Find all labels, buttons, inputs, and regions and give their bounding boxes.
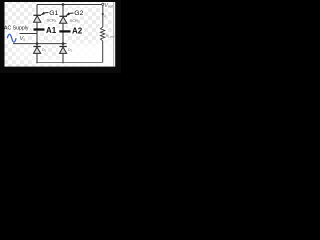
frame left — [0, 0, 5, 73]
thyristor SCR1 — [33, 15, 41, 22]
wire: load to bottom rail — [102, 41, 104, 63]
current arrow IL — [102, 13, 105, 16]
wire: right rail down to load — [102, 5, 104, 27]
wire: D1 to bottom rail — [36, 53, 38, 62]
wire: SCR1 anode drop — [36, 5, 38, 16]
thyristor SCR2 — [59, 16, 67, 23]
svg-text:A1: A1 — [46, 26, 57, 35]
photo edge line right — [113, 2, 115, 66]
frame right — [115, 0, 121, 73]
frame bottom — [0, 67, 121, 73]
terminal bar A1 — [34, 28, 45, 30]
AC source sine wave — [7, 34, 16, 42]
svg-text:D1: D1 — [42, 48, 47, 52]
wire: SCR1 cathode to A1 bar — [36, 22, 38, 29]
frame top — [0, 0, 121, 2]
svg-text:Vs: Vs — [20, 36, 26, 42]
wire: SCR2 anode drop — [62, 5, 64, 17]
diode D1 — [33, 47, 40, 54]
svg-text:AC Supply: AC Supply — [4, 25, 29, 31]
svg-text:SCR1: SCR1 — [47, 18, 57, 24]
svg-text:SCR2: SCR2 — [70, 18, 80, 24]
gate arrow G1 — [40, 12, 48, 16]
svg-text:G1: G1 — [49, 10, 58, 17]
svg-text:Vout: Vout — [104, 3, 114, 9]
terminal bar A2 — [59, 30, 70, 32]
node J4 bottom rail left — [36, 62, 38, 64]
transparent checkerboard background — [0, 0, 121, 73]
diode D2 — [59, 47, 66, 54]
svg-text:A2: A2 — [72, 27, 83, 36]
svg-text:G2: G2 — [74, 10, 83, 17]
wire: A1 bar down to D1 junction — [36, 31, 38, 47]
wire: SCR2 cathode to A2 bar — [62, 23, 64, 30]
resistor RL — [100, 27, 104, 41]
white paper halo under artwork — [4, 2, 115, 66]
wire: AC lower terminal — [13, 43, 67, 45]
node J5 bottom rail mid — [62, 62, 64, 64]
node Vout terminal — [102, 3, 104, 5]
node J2 D1 junction — [36, 42, 39, 45]
svg-text:D2: D2 — [68, 48, 73, 52]
wire: A2 bar down to D2 junction — [62, 33, 64, 47]
gate arrow G2 — [65, 12, 73, 16]
wire: AC upper terminal — [20, 33, 38, 35]
wire: top rail — [37, 4, 103, 6]
wire: D2 to bottom rail — [62, 53, 64, 62]
node J3 D2 junction — [62, 42, 65, 45]
node J1 top-rail junction — [62, 3, 65, 6]
paper white patch lower right — [15, 40, 113, 67]
wire: bottom rail — [37, 62, 103, 64]
